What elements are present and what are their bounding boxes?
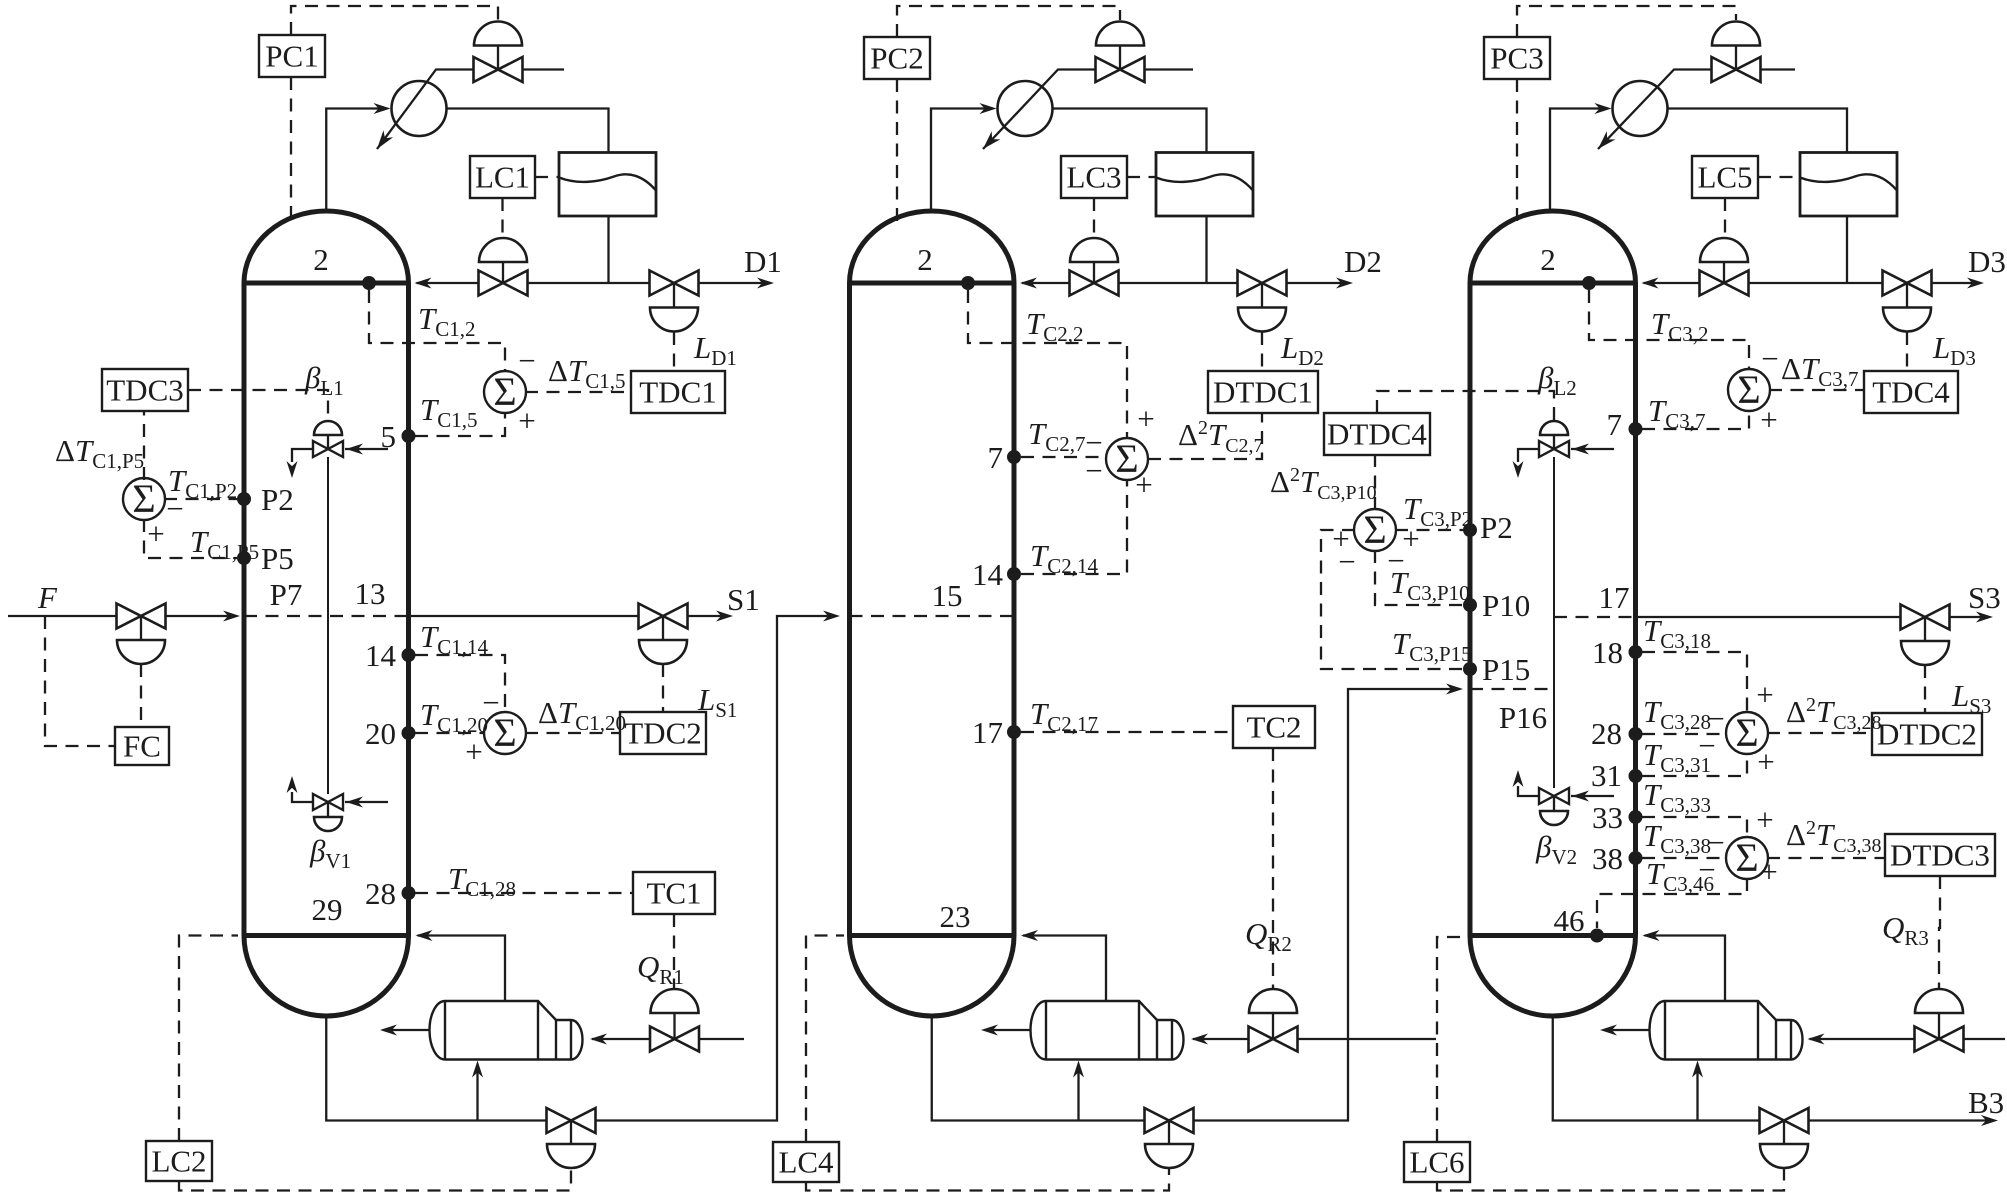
inlet to beta V2 valve: [1571, 795, 1614, 797]
node stage 46 tap: [1590, 929, 1604, 943]
controller TDC3: [102, 369, 188, 411]
reflux control valve: [479, 238, 527, 262]
controller PC1: [259, 35, 325, 77]
steam supply line: [1964, 1038, 2006, 1040]
signal LC5 level tap: [1758, 176, 1800, 178]
signal PC2 pressure tap: [896, 79, 898, 222]
svg-text:FC: FC: [123, 729, 161, 764]
signal PC1 to coolant valve: [291, 6, 498, 35]
reboiler liquid outlet arrow: [987, 1029, 1031, 1031]
summator for dT C3,7: [1728, 369, 1770, 411]
summator for d2T C2,7: [1106, 438, 1148, 480]
node stage 28 tap: [402, 886, 416, 900]
node stage 20 tap: [402, 726, 416, 740]
column C2 bottom tray line: [850, 933, 1015, 938]
steam valve of reboiler R3: [1915, 989, 1963, 1013]
level controller LC5: [1692, 156, 1758, 198]
node stage 31 tap: [1629, 769, 1643, 783]
signal T C3,46: [1597, 878, 1747, 928]
condenser E3 coolant diagonal with arrow: [1598, 70, 1712, 150]
svg-text:Σ: Σ: [1363, 507, 1386, 552]
reflux drum of column 1: [559, 153, 656, 217]
svg-text:QR1: QR1: [637, 949, 684, 989]
reflux line from drum to column: [607, 216, 609, 283]
signal LC6 level tap: [1437, 937, 1466, 1142]
column C3 top dome: [1470, 211, 1636, 283]
svg-text:LC2: LC2: [151, 1144, 206, 1179]
node P5: [237, 551, 251, 565]
feed line F: [8, 615, 117, 617]
coolant outlet line: [523, 68, 565, 70]
controller TDC2: [620, 712, 706, 754]
svg-text:Δ2TC3,P10: Δ2TC3,P10: [1270, 464, 1377, 504]
signal dT C1,5 to TDC1: [525, 391, 631, 393]
signal T C2,7: [1021, 456, 1106, 458]
boilup vapour return line: [1023, 936, 1106, 1002]
svg-text:+: +: [518, 403, 535, 438]
signal DTDC3 to steam valve: [1939, 876, 1940, 989]
svg-text:LD3: LD3: [1932, 330, 1976, 370]
svg-text:S3: S3: [1968, 580, 2001, 615]
controller LC2: [146, 1141, 212, 1181]
inlet to beta L2 valve: [1571, 448, 1614, 450]
signal DTDC4 to liquid split valve: [1377, 391, 1554, 420]
reboiler liquid outlet arrow: [386, 1029, 430, 1031]
condensate line to reflux drum: [447, 109, 609, 153]
reflux drum of column 2: [1156, 153, 1253, 217]
overhead vapour line to condenser E1: [326, 109, 386, 214]
boilup vapour return line: [418, 936, 506, 1002]
svg-text:D3: D3: [1968, 244, 2006, 279]
inlet to beta L1 valve: [345, 448, 388, 450]
svg-text:ΔTC3,7: ΔTC3,7: [1781, 351, 1858, 391]
node P10: [1463, 598, 1477, 612]
signal T C2,14: [1021, 481, 1127, 574]
svg-text:Σ: Σ: [1735, 710, 1758, 755]
signal L S1 to TDC2: [662, 664, 664, 712]
signal TC1 to steam valve: [673, 914, 675, 989]
column C2 top tray line (stage 2): [850, 281, 1015, 286]
bottoms line of C3: [1553, 1016, 1760, 1121]
coolant control valve PV3: [1712, 22, 1760, 46]
svg-text:TDC1: TDC1: [639, 375, 717, 410]
vapour split valve beta V1: [314, 817, 342, 831]
svg-text:LD1: LD1: [693, 330, 737, 370]
signal LC4 to bottoms valve: [806, 1169, 1169, 1191]
boilup vapour return line: [1645, 936, 1726, 1002]
svg-text:DTDC1: DTDC1: [1213, 375, 1313, 410]
svg-text:TDC2: TDC2: [624, 716, 702, 751]
signal L D3 to distillate valve: [1906, 332, 1908, 371]
reboiler feed from column bottoms: [476, 1067, 478, 1121]
reflux control valve: [1070, 238, 1118, 262]
signal T C3,38: [1642, 857, 1726, 859]
signal T C3,33: [1642, 817, 1747, 836]
signal FC to feed valve: [140, 664, 142, 727]
distillate line D3: [1847, 282, 1883, 284]
svg-text:14: 14: [972, 557, 1004, 592]
signal LC2 level tap: [179, 936, 238, 1142]
condenser E2 coolant diagonal with arrow: [983, 70, 1096, 150]
signal L S3 to DTDC2: [1924, 665, 1926, 713]
summator for d2T C3,38: [1726, 837, 1768, 879]
overhead vapour line to condenser E3: [1550, 109, 1607, 214]
signal dT C1,20 to TDC2: [525, 732, 620, 734]
svg-text:DTDC2: DTDC2: [1877, 717, 1977, 752]
svg-text:Δ2TC3,38: Δ2TC3,38: [1786, 817, 1882, 857]
svg-text:TC1,20: TC1,20: [420, 697, 488, 737]
svg-text:TC3,P15: TC3,P15: [1392, 626, 1472, 666]
steam line into reboiler: [1810, 1038, 1915, 1040]
coolant control valve PV1: [474, 22, 522, 46]
signal PC1 pressure tap: [290, 77, 292, 222]
svg-text:2: 2: [917, 242, 933, 277]
steam line into reboiler: [592, 1038, 650, 1040]
side stream valve S1: [639, 604, 688, 629]
feed valve: [117, 604, 166, 629]
svg-text:Δ2TC3,28: Δ2TC3,28: [1786, 694, 1882, 734]
side stream S3 line: [1636, 616, 1901, 618]
signal T C2,2: [968, 290, 1127, 437]
feed path inside column C2: [850, 615, 1015, 617]
column C3 top tray line (stage 2): [1470, 281, 1636, 286]
signal LC2 to bottoms valve: [179, 1169, 571, 1191]
signal dT C1,P5 to TDC3: [143, 411, 145, 480]
svg-text:7: 7: [988, 440, 1004, 475]
overhead vapour line to condenser E2: [931, 109, 992, 214]
svg-text:LD2: LD2: [1280, 330, 1324, 370]
svg-text:ΔTC1,P5: ΔTC1,P5: [55, 433, 144, 473]
signal d2T C2,7 to DTDC1: [1148, 413, 1262, 459]
bottoms line of C2: [932, 1016, 1145, 1121]
column C1 bottom head: [244, 936, 409, 1017]
signal PC3 pressure tap: [1516, 79, 1518, 222]
reflux drum liquid level wavy line: [1156, 174, 1253, 190]
node stage 2 tap of C2: [961, 276, 975, 290]
svg-text:TC1,5: TC1,5: [420, 392, 478, 432]
node stage 33 tap: [1629, 810, 1643, 824]
bottoms valve B3: [1760, 1108, 1809, 1133]
distillate line D2: [1207, 282, 1238, 284]
svg-text:Σ: Σ: [1115, 436, 1138, 481]
svg-text:B3: B3: [1968, 1085, 2004, 1120]
reflux line from drum to column: [1846, 216, 1848, 283]
distillate valve of D1: [650, 271, 699, 296]
outlet of beta V2 valve: [1518, 786, 1539, 796]
condenser E1 coolant diagonal with arrow: [377, 70, 474, 150]
node stage 14 tap: [402, 648, 416, 662]
svg-text:βL1: βL1: [304, 360, 344, 400]
signal L D1 to distillate valve: [673, 332, 675, 371]
signal T C3,7: [1642, 412, 1749, 429]
svg-text:TC2,17: TC2,17: [1030, 696, 1098, 736]
svg-text:TC1,14: TC1,14: [420, 619, 489, 659]
reflux drum liquid level wavy line: [1800, 174, 1897, 190]
svg-text:−: −: [1085, 453, 1102, 488]
svg-text:QR2: QR2: [1245, 916, 1292, 956]
distillate valve of D2: [1238, 271, 1287, 296]
condenser E2 (heat exchanger circle): [998, 81, 1053, 136]
svg-text:P7: P7: [270, 577, 303, 612]
svg-text:Σ: Σ: [132, 476, 155, 521]
svg-text:TC3,P10: TC3,P10: [1390, 565, 1470, 605]
steam valve of reboiler R2: [1249, 989, 1297, 1013]
controller TDC1: [631, 371, 725, 413]
reboiler R3 shell: [1665, 1001, 1803, 1060]
svg-text:P2: P2: [1480, 510, 1513, 545]
column C3 bottom head: [1470, 936, 1636, 1017]
signal T C2,17 to TC2: [1021, 731, 1233, 733]
column C2 bottom head: [850, 936, 1015, 1017]
svg-text:Δ2TC2,7: Δ2TC2,7: [1178, 417, 1264, 457]
coolant outlet line: [1145, 68, 1194, 70]
svg-text:TC1,28: TC1,28: [448, 861, 516, 901]
svg-text:17: 17: [1599, 580, 1630, 615]
controller DTDC3: [1885, 834, 1995, 876]
svg-text:18: 18: [1592, 635, 1623, 670]
bottoms valve B2: [1145, 1108, 1194, 1133]
column C1 shell right wall: [406, 283, 411, 936]
signal T C3,18: [1642, 652, 1747, 711]
svg-text:28: 28: [1591, 716, 1622, 751]
column C2 shell right wall: [1012, 283, 1017, 936]
controller TC2: [1233, 706, 1315, 748]
svg-text:Σ: Σ: [493, 369, 516, 414]
reflux line from drum to column: [1205, 216, 1207, 283]
svg-text:29: 29: [312, 892, 343, 927]
liquid split valve beta L2: [1540, 421, 1568, 435]
column C2 top dome: [850, 211, 1015, 283]
signal d2T C3,28 to DTDC2: [1767, 732, 1872, 734]
signal flow tap to FC: [45, 616, 115, 746]
steam valve of reboiler R1: [651, 989, 699, 1013]
signal LC6 to bottoms valve: [1437, 1169, 1784, 1191]
svg-text:+: +: [1760, 854, 1777, 889]
reboiler R1 shell: [445, 1001, 583, 1060]
svg-text:βL2: βL2: [1537, 360, 1577, 400]
svg-text:LC5: LC5: [1697, 160, 1752, 195]
svg-text:P10: P10: [1482, 588, 1530, 623]
bottoms valve B1: [547, 1108, 596, 1133]
signal PC2 to coolant valve: [897, 6, 1120, 37]
signal T C3,P10: [1375, 550, 1463, 605]
controller DTDC1: [1208, 371, 1318, 413]
column C1 top dome: [244, 211, 409, 283]
svg-text:Σ: Σ: [493, 710, 516, 755]
feed line into column: [166, 615, 235, 617]
svg-text:−: −: [1338, 544, 1355, 579]
svg-text:TC1: TC1: [646, 876, 701, 911]
column C1 shell left wall: [242, 283, 247, 936]
node stage 14 tap of C2: [1007, 567, 1021, 581]
svg-text:Σ: Σ: [1735, 835, 1758, 880]
signal d2T C3,38 to DTDC3: [1767, 857, 1885, 859]
signal T C1,2: [369, 290, 505, 370]
controller LC4: [773, 1142, 839, 1182]
svg-text:LC1: LC1: [475, 160, 530, 195]
signal T C3,28: [1642, 733, 1726, 735]
svg-text:TC1,2: TC1,2: [418, 301, 476, 341]
node stage 7 tap of C3: [1629, 422, 1643, 436]
signal TC2 to steam valve: [1272, 748, 1274, 989]
signal T C3,2: [1589, 290, 1749, 368]
svg-text:TDC3: TDC3: [106, 373, 184, 408]
summator for dT C1,P5: [123, 478, 165, 520]
svg-text:46: 46: [1554, 903, 1585, 938]
controller PC2: [864, 37, 930, 79]
svg-text:TC2,2: TC2,2: [1026, 306, 1084, 346]
controller PC3: [1484, 37, 1550, 79]
reboiler liquid outlet arrow: [1606, 1029, 1650, 1031]
reboiler feed from column bottoms: [1077, 1067, 1079, 1121]
svg-text:ΔTC1,5: ΔTC1,5: [548, 353, 625, 393]
svg-text:TC3,18: TC3,18: [1643, 613, 1711, 653]
coolant control valve PV2: [1096, 22, 1144, 46]
svg-text:TC3,33: TC3,33: [1643, 777, 1711, 817]
svg-text:+: +: [1756, 677, 1773, 712]
svg-text:TDC4: TDC4: [1872, 375, 1950, 410]
column C1 bottom tray line: [244, 933, 409, 938]
svg-text:2: 2: [313, 242, 329, 277]
bottoms line to column C3 feed: [1194, 689, 1457, 1121]
reboiler R3 internal lines: [1757, 1001, 1759, 1060]
bottoms product line B3: [1809, 1119, 1992, 1121]
signal T C1,28 to TC1: [415, 892, 633, 894]
reflux control valve: [1700, 238, 1748, 262]
svg-text:+: +: [1137, 401, 1154, 436]
column C3 shell right wall: [1633, 283, 1638, 936]
svg-text:−: −: [166, 491, 183, 526]
svg-text:TC2: TC2: [1246, 710, 1301, 745]
distillate valve of D3: [1883, 271, 1932, 296]
svg-text:P5: P5: [261, 541, 294, 576]
bottoms line of C1: [326, 1016, 546, 1121]
svg-text:−: −: [518, 343, 535, 378]
svg-text:LC3: LC3: [1066, 160, 1121, 195]
reboiler feed from column bottoms: [1696, 1067, 1698, 1121]
summator for dT C1,20: [484, 712, 526, 754]
node stage 38 tap: [1629, 851, 1643, 865]
column C2 shell left wall: [847, 283, 852, 936]
signal T C1,P2: [164, 498, 237, 500]
svg-text:D1: D1: [744, 244, 782, 279]
controller FC: [115, 727, 169, 765]
column C1 top tray line (stage 2): [244, 281, 409, 286]
signal T C1,5: [415, 413, 505, 436]
svg-text:βV1: βV1: [309, 833, 351, 873]
svg-text:20: 20: [365, 716, 396, 751]
node P2: [237, 492, 251, 506]
signal LC4 level tap: [806, 936, 844, 1143]
outlet of beta V1 valve: [292, 792, 313, 802]
svg-text:PC3: PC3: [1490, 41, 1543, 76]
svg-text:14: 14: [365, 638, 397, 673]
node P2 of C3: [1463, 523, 1477, 537]
controller TDC4: [1864, 371, 1958, 413]
feed path inside column: [244, 615, 409, 617]
signal T C3,P2: [1395, 529, 1463, 531]
node stage 17 tap of C2: [1007, 725, 1021, 739]
svg-text:TC2,7: TC2,7: [1028, 416, 1086, 456]
controller DTDC4: [1324, 413, 1430, 455]
svg-text:17: 17: [972, 715, 1003, 750]
svg-text:+: +: [1402, 521, 1419, 556]
signal LC1 to reflux valve: [501, 198, 503, 238]
condensate line to reflux drum: [1053, 109, 1207, 153]
condenser E3 (heat exchanger circle): [1613, 81, 1668, 136]
summator for dT C1,5: [484, 371, 526, 413]
column C3 bottom tray line: [1470, 933, 1636, 938]
reboiler R2 internal lines: [1138, 1001, 1140, 1060]
svg-text:Σ: Σ: [1737, 367, 1760, 412]
svg-text:LS1: LS1: [697, 682, 737, 722]
reboiler R2 shell: [1046, 1001, 1184, 1060]
reboiler R1 internal lines: [537, 1001, 539, 1060]
signal T C1,P5: [144, 519, 237, 558]
svg-text:15: 15: [932, 578, 963, 613]
svg-text:P2: P2: [261, 482, 294, 517]
signal L D2 to distillate valve: [1261, 332, 1263, 371]
side stream valve S3: [1901, 605, 1950, 630]
svg-text:βV2: βV2: [1535, 829, 1577, 869]
signal d2T C3,P10 from summator to DTDC4: [1374, 455, 1376, 510]
coolant outlet line: [1761, 68, 1796, 70]
node stage 2 tap of C3: [1582, 276, 1596, 290]
signal T C3,31: [1642, 755, 1747, 776]
reflux drum liquid level wavy line: [559, 174, 656, 190]
node stage 2 tap of C1: [362, 276, 376, 290]
feed path inside column C3: [1470, 688, 1554, 690]
controller TC1: [633, 872, 715, 914]
column C3 shell left wall: [1468, 283, 1473, 936]
svg-text:−: −: [1761, 341, 1778, 376]
signal LC3 level tap: [1127, 176, 1156, 178]
svg-text:DTDC4: DTDC4: [1327, 417, 1427, 452]
svg-text:7: 7: [1607, 407, 1623, 442]
steam line into reboiler: [1193, 1038, 1249, 1040]
node P15: [1463, 662, 1477, 676]
svg-text:33: 33: [1592, 800, 1623, 835]
svg-text:PC2: PC2: [870, 41, 923, 76]
svg-text:F: F: [37, 580, 58, 615]
svg-text:TC3,2: TC3,2: [1651, 306, 1709, 346]
svg-text:28: 28: [365, 876, 396, 911]
svg-text:13: 13: [355, 576, 386, 611]
svg-text:23: 23: [940, 899, 971, 934]
condenser E1 (heat exchanger circle): [392, 81, 447, 136]
svg-text:31: 31: [1591, 758, 1622, 793]
outlet of beta L2 valve: [1518, 449, 1539, 462]
bottoms line to column C2 feed: [596, 616, 834, 1121]
svg-text:QR3: QR3: [1882, 910, 1929, 950]
svg-text:2: 2: [1540, 242, 1556, 277]
signal T C3,P15: [1321, 530, 1463, 669]
svg-text:+: +: [147, 516, 164, 551]
side stream S3 path inside column: [1554, 616, 1636, 618]
node stage 28 tap of C3: [1629, 727, 1643, 741]
signal LC5 to reflux valve: [1724, 198, 1726, 238]
node stage 7 tap of C2: [1007, 450, 1021, 464]
distillate line D1: [609, 282, 650, 284]
svg-text:38: 38: [1592, 841, 1623, 876]
signal T C1,20: [415, 732, 485, 734]
svg-text:TC3,7: TC3,7: [1648, 393, 1706, 433]
svg-text:DTDC3: DTDC3: [1890, 838, 1990, 873]
inlet to beta V1 valve: [345, 801, 388, 803]
controller LC6: [1404, 1142, 1470, 1182]
signal dT C3,7 to TDC4: [1769, 389, 1864, 391]
signal T C1,14: [415, 655, 505, 712]
